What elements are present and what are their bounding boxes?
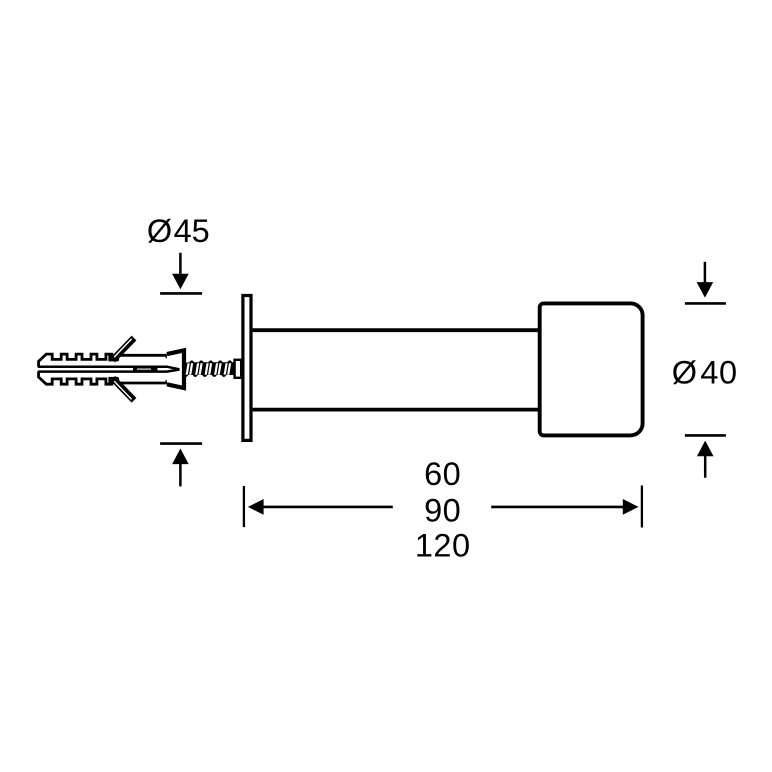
svg-text:Ø: Ø [147,213,172,249]
svg-text:90: 90 [424,493,461,529]
svg-text:40: 40 [700,355,737,391]
svg-text:120: 120 [415,528,471,564]
svg-text:60: 60 [424,456,461,492]
svg-text:45: 45 [174,213,210,249]
svg-text:Ø: Ø [672,355,697,391]
